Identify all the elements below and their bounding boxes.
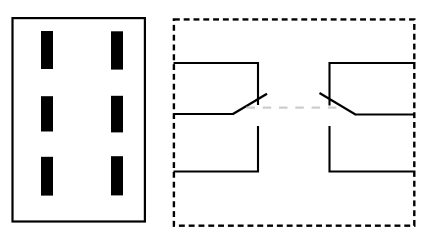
terminal pin 5 <box>41 157 53 196</box>
terminal pin 1 <box>41 31 53 69</box>
wire: pole A lower throw (bottom contact) <box>174 126 259 172</box>
terminal pin 3 <box>41 96 53 131</box>
switch S1 schematic boundary (dashed enclosure) <box>174 19 414 225</box>
wire: pole A upper throw (top contact) <box>174 63 259 105</box>
switch arm pole B <box>320 93 357 115</box>
wire: pole A common terminal <box>174 113 234 115</box>
wire: pole B upper throw (top contact) <box>330 63 416 106</box>
mechanical coupling link between poles (dashed) <box>246 106 336 108</box>
switch arm pole A <box>233 94 268 115</box>
terminal pin 2 <box>111 31 123 69</box>
wire: pole B common terminal <box>355 113 416 115</box>
terminal pin 4 <box>111 96 123 133</box>
wire: pole B lower throw (bottom contact) <box>330 126 416 172</box>
terminal pin 6 <box>111 156 123 195</box>
switch S1 package outline (physical top view) <box>13 18 145 221</box>
